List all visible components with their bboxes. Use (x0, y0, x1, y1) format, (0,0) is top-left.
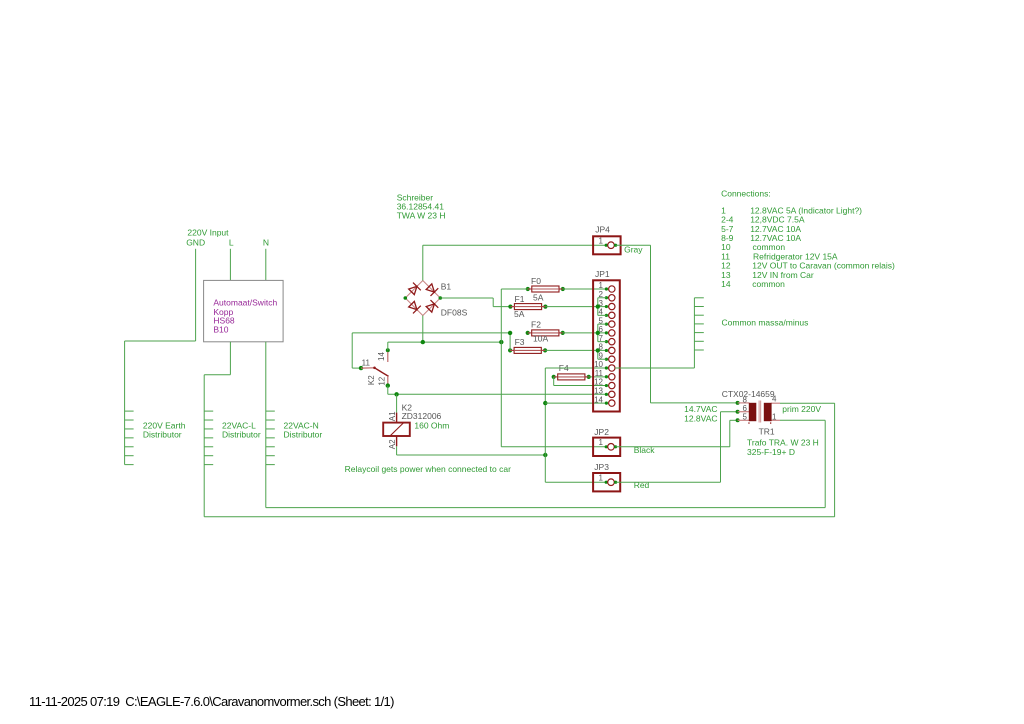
svg-text:B1: B1 (441, 281, 452, 291)
svg-text:TWA W 23 H: TWA W 23 H (397, 210, 446, 220)
svg-text:Distributor: Distributor (284, 430, 323, 440)
svg-text:L: L (229, 238, 234, 248)
svg-text:JP2: JP2 (594, 427, 609, 437)
svg-text:12.8VAC: 12.8VAC (684, 413, 717, 423)
svg-text:JP3: JP3 (594, 462, 609, 472)
svg-text:5A: 5A (533, 293, 544, 303)
svg-text:1: 1 (599, 473, 604, 482)
svg-text:Common massa/minus: Common massa/minus (722, 318, 809, 328)
svg-text:14: 14 (594, 395, 603, 404)
svg-text:Gray: Gray (624, 244, 643, 254)
svg-text:160 Ohm: 160 Ohm (414, 421, 449, 431)
svg-text:14: 14 (377, 352, 386, 361)
svg-text:12: 12 (378, 376, 387, 385)
svg-text:DF08S: DF08S (441, 307, 468, 317)
svg-text:5: 5 (743, 413, 748, 422)
svg-text:1: 1 (599, 236, 604, 245)
svg-text:Trafo TRA. W 23 H: Trafo TRA. W 23 H (747, 438, 819, 448)
svg-text:Connections:: Connections: (721, 188, 771, 198)
svg-text:10: 10 (594, 360, 603, 369)
svg-text:prim 220V: prim 220V (782, 404, 821, 414)
svg-text:Relaycoil gets power when conn: Relaycoil gets power when connected to c… (345, 464, 511, 474)
svg-text:F0: F0 (531, 276, 541, 286)
svg-text:F1: F1 (515, 294, 525, 304)
svg-text:1: 1 (599, 438, 604, 447)
svg-text:common: common (752, 279, 785, 289)
svg-text:11: 11 (595, 369, 604, 378)
svg-text:ZD312006: ZD312006 (402, 411, 442, 421)
svg-text:Distributor: Distributor (143, 430, 182, 440)
svg-text:13: 13 (594, 387, 603, 396)
svg-text:12: 12 (594, 378, 603, 387)
svg-text:JP1: JP1 (595, 269, 610, 279)
svg-text:14: 14 (721, 279, 731, 289)
svg-text:5A: 5A (514, 309, 525, 319)
svg-text:A1: A1 (388, 411, 397, 421)
svg-text:N: N (263, 238, 269, 248)
svg-text:JP4: JP4 (595, 225, 610, 235)
svg-text:K2: K2 (367, 375, 376, 385)
svg-text:10A: 10A (533, 334, 548, 344)
svg-text:GND: GND (186, 238, 205, 248)
svg-text:A2: A2 (388, 439, 397, 449)
svg-text:TR1: TR1 (759, 426, 775, 436)
svg-text:1: 1 (772, 413, 777, 422)
svg-text:Distributor: Distributor (222, 430, 261, 440)
svg-text:CTX02-14659: CTX02-14659 (722, 389, 775, 399)
svg-text:325-F-19+ D: 325-F-19+ D (747, 447, 795, 457)
svg-text:F3: F3 (515, 337, 525, 347)
svg-text:F2: F2 (531, 320, 541, 330)
svg-text:B10: B10 (213, 325, 228, 335)
svg-text:11: 11 (362, 358, 371, 367)
svg-text:220V Input: 220V Input (187, 227, 229, 237)
svg-text:F4: F4 (0, 0, 10, 2)
svg-text:1: 1 (599, 281, 604, 290)
svg-text:4: 4 (772, 395, 777, 404)
